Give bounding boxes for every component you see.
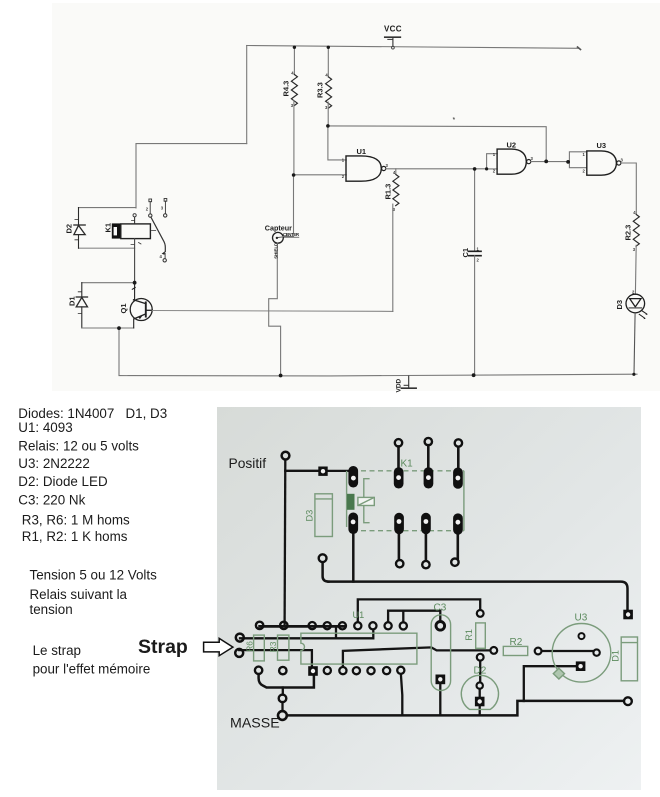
switch contact stems <box>150 201 165 214</box>
svg-text:U1: 4093: U1: 4093 <box>18 420 72 435</box>
svg-text:C3: 220 Nk: C3: 220 Nk <box>18 492 85 507</box>
NAND gate U2 <box>497 149 526 174</box>
wire D1 bottom link <box>82 327 134 329</box>
relay K1 dashed outline <box>361 471 464 531</box>
op-amp/NAND gate U1 <box>346 156 381 181</box>
capacitor C1 <box>469 251 481 255</box>
U3 tab diamond <box>553 668 564 679</box>
wire top VCC rail <box>247 46 579 49</box>
wire base riser to R1.3 <box>392 204 394 311</box>
trace U3 square to bottom run <box>524 666 577 701</box>
D2 outline <box>461 675 498 709</box>
relay bottom pin stem <box>134 239 136 283</box>
trace strap pad1 run <box>240 630 373 639</box>
U3 outline <box>552 624 611 683</box>
relay coil bracket <box>364 479 370 523</box>
gate U3 input tie <box>569 152 587 168</box>
svg-text:SHIELD: SHIELD <box>273 243 278 259</box>
svg-text:D2: D2 <box>65 224 74 234</box>
PCB labels black <box>229 456 280 731</box>
relay top pin circle <box>133 214 136 217</box>
switch blade arrow <box>162 251 165 255</box>
switch contact circles <box>149 214 152 217</box>
relay coil mini symbol <box>358 497 374 505</box>
R2 outline <box>503 646 527 655</box>
trace U1 pins to C3 top <box>388 611 440 622</box>
diode D1 <box>76 283 87 328</box>
trace D2 internal <box>479 689 481 698</box>
svg-text:R3, R6: 1 M homs: R3, R6: 1 M homs <box>22 512 130 527</box>
resistor R4.3 <box>293 47 295 74</box>
wire capteur shield run <box>269 243 281 376</box>
wire feedback from U2 output <box>328 126 546 161</box>
svg-text:U1: U1 <box>357 147 367 156</box>
trace relay stems top <box>399 445 459 469</box>
relay top pin stem <box>134 217 136 223</box>
switch bottom circle pin 4 <box>163 259 166 262</box>
capteur circle <box>273 232 284 243</box>
wire U1 pin2 link <box>294 174 347 176</box>
svg-text:Capteur: Capteur <box>265 224 292 233</box>
trace pad to MASSE pad <box>281 702 283 711</box>
wire capteur center stem <box>283 175 294 237</box>
svg-text:tension: tension <box>30 602 73 617</box>
wire U3 output to R2.3 <box>621 163 636 215</box>
trace Positif pad vertical <box>283 460 286 626</box>
wire R2.3 to D3 <box>634 245 637 294</box>
wire D2 bottom link <box>79 247 135 249</box>
svg-text:U3: U3 <box>597 141 607 150</box>
svg-text:VCC: VCC <box>384 25 402 34</box>
wire U1 output <box>386 168 487 170</box>
switch contact squares <box>149 199 152 202</box>
svg-text:Relais suivant la: Relais suivant la <box>30 587 128 602</box>
trace MASSE long run <box>287 701 524 716</box>
svg-text:Q1: Q1 <box>119 303 128 313</box>
trace branch to lower pad <box>282 688 284 695</box>
svg-text:Positif: Positif <box>229 456 267 471</box>
power VCC symbol <box>385 36 401 38</box>
node junction dots <box>117 46 635 378</box>
svg-text:C3: C3 <box>434 602 447 613</box>
R6 outline <box>254 635 265 661</box>
svg-text:R1.3: R1.3 <box>383 184 392 200</box>
svg-text:R2.3: R2.3 <box>624 225 633 241</box>
relay pin marks <box>131 221 156 245</box>
trace C3 square drop to MASSE <box>439 684 441 715</box>
PCB panel background <box>217 407 641 790</box>
svg-text:*: * <box>453 117 456 124</box>
svg-text:U3: 2N2222: U3: 2N2222 <box>18 456 89 471</box>
resistor R3.3 <box>327 47 329 77</box>
wire U1 pin1 link <box>328 126 346 160</box>
pin digits <box>146 71 636 295</box>
trace bottom run to right pad <box>524 700 624 703</box>
trace U1 pin to R2 pad <box>343 647 490 666</box>
resistor R2.3 <box>633 215 639 247</box>
trace coil bottom drop <box>352 533 355 582</box>
svg-text:R3.3: R3.3 <box>315 82 324 98</box>
wire bottom rail <box>119 374 637 376</box>
transistor Q1 <box>130 283 152 328</box>
component list text block <box>18 406 188 677</box>
wire U2 output <box>531 161 569 163</box>
svg-text:U2: U2 <box>507 141 517 150</box>
svg-text:Relais: 12 ou 5 volts: Relais: 12 ou 5 volts <box>18 438 139 453</box>
oval pads <box>348 466 462 535</box>
relay coil left line <box>346 471 348 527</box>
wire C1 branch <box>474 169 476 251</box>
switch blade <box>151 217 165 251</box>
svg-text:D3: D3 <box>615 300 624 310</box>
svg-text:R2: R2 <box>510 637 523 648</box>
svg-text:Tension 5 ou 12 Volts: Tension 5 ou 12 Volts <box>30 567 158 582</box>
D1 outline <box>621 637 637 681</box>
svg-text:D1: D1 <box>68 296 77 306</box>
U1 IC outline <box>301 633 417 664</box>
svg-text:D3: D3 <box>305 510 315 522</box>
D3 outline <box>315 494 333 537</box>
schematic text labels <box>65 25 637 393</box>
wire Q1 base long <box>152 310 392 313</box>
LED D3 <box>626 294 647 318</box>
relay K1 coil box <box>112 223 151 238</box>
svg-text:VDD: VDD <box>396 378 403 392</box>
trace R1 to D2 <box>479 661 481 683</box>
node top rail right end tick <box>578 47 581 50</box>
svg-text:D2: D2 <box>474 665 487 676</box>
svg-text:CENTER: CENTER <box>283 232 300 237</box>
square pads <box>308 467 633 707</box>
svg-text:U3: U3 <box>575 612 588 623</box>
NAND gate U3 <box>587 151 617 175</box>
svg-text:R3: R3 <box>268 641 278 652</box>
Q1 emitter arrow <box>138 315 143 319</box>
C3 outline <box>431 615 450 691</box>
schematic scan background <box>52 3 660 391</box>
square pad holes <box>311 469 631 704</box>
trace D3 pad to long run <box>323 562 329 581</box>
relay coil hatch block <box>347 494 355 510</box>
svg-text:K1: K1 <box>104 223 113 233</box>
diode D2 <box>74 208 85 249</box>
svg-text:R1, R2: 1 K homs: R1, R2: 1 K homs <box>22 529 128 544</box>
svg-text:U1: U1 <box>353 610 365 620</box>
trace R2 to U3 pad <box>542 650 593 652</box>
trace U1 pin to R1 <box>358 599 480 621</box>
wire drop to ground rail <box>118 328 120 375</box>
wire left drop from rail <box>246 46 248 144</box>
svg-text:D2: Diode LED: D2: Diode LED <box>18 474 108 489</box>
wire D2 top link <box>79 207 137 209</box>
trace Positif to relay coil <box>285 470 348 472</box>
svg-text:pour l'effet mémoire: pour l'effet mémoire <box>33 662 151 677</box>
svg-text:R4.3: R4.3 <box>282 81 291 97</box>
wire R1.3 stub <box>395 169 397 175</box>
oval pad holes <box>351 475 461 524</box>
svg-text:C1: C1 <box>461 248 470 258</box>
svg-text:K1: K1 <box>401 458 414 469</box>
trace D2 to MASSE run <box>479 706 481 715</box>
gate U2 input tie <box>487 154 498 169</box>
strap pointer block arrow <box>204 638 233 655</box>
trace U1 pin7 drop to MASSE <box>401 674 402 715</box>
wire D3 bottom <box>634 313 635 375</box>
trace left curve bottom row <box>259 674 314 687</box>
svg-text:MASSE: MASSE <box>230 716 280 732</box>
svg-text:R1: R1 <box>464 629 474 641</box>
svg-text:R6: R6 <box>244 641 254 652</box>
svg-text:Diodes: 1N4007 D1, D3: Diodes: 1N4007 D1, D3 <box>18 406 167 421</box>
wire jog left to relay column <box>136 144 247 208</box>
trace relay stems bottom <box>399 533 458 561</box>
round ring pads <box>235 438 632 720</box>
svg-text:Le strap: Le strap <box>33 643 81 658</box>
green labels <box>244 458 620 676</box>
R3 outline <box>278 635 289 660</box>
trace strap pad2 to U1 pin1 square <box>239 650 312 666</box>
svg-text:Strap: Strap <box>138 636 188 658</box>
wire D1 top link <box>82 282 135 284</box>
svg-text:D1: D1 <box>610 650 620 662</box>
trace long run to D1 top pad <box>329 582 628 611</box>
power VDD symbol <box>408 376 410 387</box>
trace U1 top-left row <box>260 625 344 628</box>
resistor R1.3 <box>393 175 399 206</box>
R1 outline <box>476 623 486 648</box>
